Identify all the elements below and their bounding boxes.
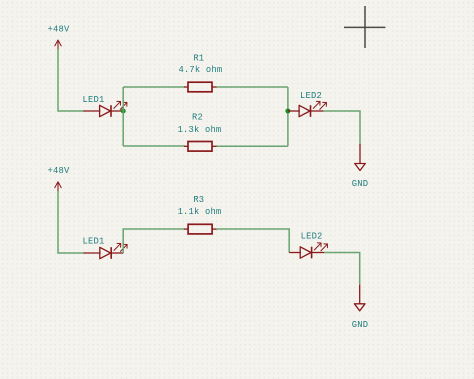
svg-text:+48V: +48V [48,25,70,35]
LED LED1 (bottom) [84,243,128,258]
resistor R1 [184,82,217,92]
svg-text:4.7k ohm: 4.7k ohm [178,65,222,75]
svg-text:LED1: LED1 [83,237,105,247]
svg-text:GND: GND [352,179,368,189]
svg-text:1.3k ohm: 1.3k ohm [178,125,222,135]
wire left branch vertical (top) [122,87,124,146]
resistor R2 [184,142,217,152]
wire right branch vertical (top) [287,87,289,146]
wire +48V down and right to LED1 (top) [58,49,85,111]
power symbol +48V (bottom-left) [55,182,62,192]
svg-text:LED2: LED2 [301,231,323,241]
svg-text:R3: R3 [193,195,204,205]
wire R1 to right node [217,86,288,88]
wire R2 to right node [217,145,288,147]
ground symbol GND (bottom) [354,284,365,311]
wire LED2 to GND corner (top) [323,111,360,145]
LED LED2 (bottom) [289,243,327,258]
svg-text:LED1: LED1 [83,95,105,105]
wire R3 right and down to LED2 (bottom) [217,229,290,253]
svg-text:GND: GND [352,320,368,330]
wire LED2 to GND corner (bottom) [324,253,360,285]
cursor crosshair [344,6,385,48]
ground symbol GND (top) [355,144,366,171]
svg-text:+48V: +48V [48,166,70,176]
junction node right (top) [285,109,290,114]
wire LED1 up to R3 branch (bottom) [123,229,184,253]
svg-text:R2: R2 [192,113,203,123]
wire left node to R2 [123,145,184,147]
power symbol +48V (top-left) [55,40,62,50]
wire +48V down and right to LED1 (bottom) [58,191,85,253]
LED LED1 (top) [84,101,127,116]
wire left node to R1 [123,86,184,88]
LED LED2 (top) [288,101,326,116]
junction node left (top) [121,109,126,114]
svg-text:R1: R1 [193,54,204,64]
svg-text:1.1k ohm: 1.1k ohm [178,207,222,217]
resistor R3 [184,224,217,234]
svg-text:LED2: LED2 [300,91,322,101]
